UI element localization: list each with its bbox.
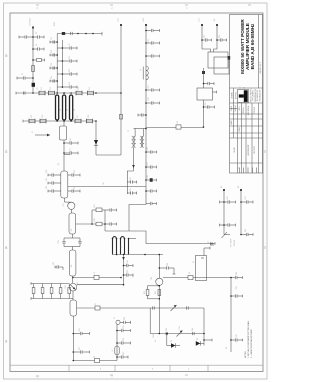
svg-text:C43: C43 bbox=[166, 328, 168, 331]
wire: bottom rail end cap bbox=[211, 242, 216, 245]
svg-text:RECORD: RECORD bbox=[254, 146, 256, 154]
svg-text:SCALE: SCALE bbox=[230, 105, 233, 111]
feed bus stub 4 bbox=[146, 88, 160, 91]
svg-text:L8: L8 bbox=[189, 272, 191, 274]
svg-text:C44: C44 bbox=[192, 328, 194, 331]
capacitor C25 bbox=[231, 338, 243, 341]
feed bus stub 3 bbox=[146, 54, 160, 57]
svg-text:TR2: TR2 bbox=[77, 282, 79, 285]
svg-text:L6: L6 bbox=[112, 350, 114, 352]
capacitor C12 bbox=[73, 332, 89, 335]
title block outline bbox=[230, 15, 263, 174]
PA module M3 bbox=[69, 250, 76, 276]
trimmer capacitor CV6 bbox=[40, 119, 46, 124]
ferrite bead on vertical net bbox=[119, 115, 122, 120]
svg-text:A: A bbox=[6, 339, 8, 343]
transformer T1 bbox=[132, 136, 145, 147]
wire: ladder right link bbox=[104, 210, 106, 231]
svg-text:1: 1 bbox=[186, 6, 188, 10]
module M4 bbox=[70, 300, 77, 316]
svg-text:C17: C17 bbox=[70, 148, 72, 151]
capacitor rung 3 bbox=[57, 72, 77, 75]
svg-text:Z1: Z1 bbox=[37, 87, 39, 89]
svg-text:C50: C50 bbox=[130, 188, 132, 191]
resistor R4 bbox=[50, 284, 53, 299]
svg-text:1. NOT ALL COMPONENTS FITTED: 1. NOT ALL COMPONENTS FITTED IN ALL bbox=[247, 321, 250, 358]
ferrite bead L5 bbox=[94, 275, 99, 279]
svg-text:TR1: TR1 bbox=[63, 203, 65, 206]
svg-text:C39: C39 bbox=[236, 286, 238, 289]
svg-text:L7: L7 bbox=[121, 246, 123, 248]
resistor R1 bbox=[32, 66, 35, 72]
svg-text:A: A bbox=[154, 340, 157, 342]
PA module M2 bbox=[69, 213, 76, 234]
wire: ladder left bus bbox=[56, 34, 58, 94]
node +13.8V rail label area bbox=[0, 0, 1, 1]
terminal arrow left bbox=[210, 244, 214, 246]
footer strip bbox=[10, 365, 263, 371]
resistor R5 bbox=[59, 284, 62, 299]
svg-text:AMENDMENT: AMENDMENT bbox=[247, 145, 250, 156]
svg-text:RX: RX bbox=[214, 18, 216, 21]
svg-text:2: 2 bbox=[188, 369, 190, 371]
ferrite bead L8 bbox=[188, 275, 193, 279]
svg-text:3: 3 bbox=[36, 6, 38, 10]
mixer stub 3 bbox=[146, 165, 157, 168]
svg-text:C24: C24 bbox=[58, 240, 60, 243]
svg-text:B: B bbox=[6, 246, 8, 250]
wire: jog into relay pin 2 bbox=[214, 46, 218, 52]
capacitor on tap line bbox=[153, 306, 155, 309]
svg-text:PCB 456: PCB 456 bbox=[254, 107, 256, 114]
thermistor TH1 bbox=[222, 232, 231, 238]
capacitor C32 bbox=[202, 38, 212, 41]
svg-text:C21: C21 bbox=[74, 170, 76, 173]
svg-text:T1: T1 bbox=[128, 130, 130, 132]
svg-text:R101: R101 bbox=[54, 22, 56, 26]
svg-text:C20: C20 bbox=[46, 186, 48, 189]
ladder rung stub 4 bbox=[50, 79, 57, 82]
capacitor C27 bbox=[220, 223, 236, 226]
svg-text:M2: M2 bbox=[71, 229, 73, 232]
capacitor C36 bbox=[127, 191, 136, 194]
wire: control top stub bbox=[204, 247, 210, 256]
svg-text:C: C bbox=[6, 150, 8, 154]
Q1 right pin 3 bbox=[68, 189, 80, 192]
svg-text:CV8: CV8 bbox=[88, 115, 90, 119]
svg-text:CV3: CV3 bbox=[78, 87, 80, 91]
svg-text:13V8 SW: 13V8 SW bbox=[30, 18, 32, 26]
notes text bbox=[245, 321, 253, 358]
trimmer capacitor CV3 bbox=[76, 91, 82, 96]
wire: detector line bbox=[146, 127, 204, 129]
feed bus stub 5 bbox=[146, 101, 160, 104]
matching network box bbox=[60, 126, 67, 140]
wire: bottom link bbox=[96, 154, 121, 156]
svg-text:L102: L102 bbox=[143, 18, 145, 22]
thermistor labels bbox=[231, 238, 236, 248]
svg-text:CV7: CV7 bbox=[77, 115, 79, 119]
trimmer capacitor CV2 bbox=[48, 91, 54, 96]
svg-text:C38: C38 bbox=[236, 272, 238, 275]
wire: M4 tap right bbox=[77, 307, 204, 309]
relay K1 box bbox=[208, 52, 228, 68]
svg-text:3: 3 bbox=[36, 375, 38, 379]
ferrite bead Z2 bbox=[95, 358, 100, 362]
table rows bbox=[230, 113, 263, 115]
control box U1 bbox=[196, 256, 207, 281]
svg-text:C30: C30 bbox=[123, 338, 125, 341]
switch branch vertical bbox=[127, 155, 135, 194]
inductor L6 bbox=[115, 346, 119, 355]
svg-text:L10: L10 bbox=[177, 121, 179, 124]
wire: filter top rail bbox=[16, 92, 121, 94]
mixer stub 4 bbox=[146, 189, 157, 192]
tiny component designator labels bbox=[22, 17, 247, 358]
title block small texts bbox=[230, 62, 262, 168]
wire: right end down bbox=[203, 334, 205, 346]
capacitor C24 bbox=[231, 294, 243, 297]
resistor R2 bbox=[32, 284, 35, 299]
svg-text:L5: L5 bbox=[94, 272, 96, 274]
capacitor C57 left stub bbox=[138, 113, 146, 116]
capacitor C30 bbox=[166, 332, 168, 335]
capacitor C6 bbox=[16, 91, 25, 94]
emitter resistor bank rails bbox=[31, 282, 73, 300]
bottom bias chain bbox=[150, 333, 204, 335]
svg-text:C14: C14 bbox=[51, 76, 53, 79]
svg-text:SENSE: SENSE bbox=[234, 239, 236, 246]
wire: ladder second bus bbox=[61, 40, 63, 88]
temp sense bus A bbox=[223, 190, 225, 235]
wire: bias line from Q1 bbox=[68, 186, 146, 188]
logo cell box bbox=[238, 90, 249, 103]
wire: long vertical net to mixer bbox=[120, 25, 122, 155]
svg-text:C48: C48 bbox=[147, 175, 149, 178]
svg-text:CV4: CV4 bbox=[89, 87, 91, 91]
capacitor C29 bbox=[241, 233, 253, 236]
svg-text:C54: C54 bbox=[219, 35, 221, 38]
top rail end terminal bbox=[101, 32, 103, 36]
svg-text:CV1: CV1 bbox=[41, 87, 43, 91]
ladder rung stub 3 bbox=[50, 66, 57, 69]
svg-text:C4: C4 bbox=[36, 44, 38, 46]
svg-text:R16: R16 bbox=[94, 218, 96, 221]
diode D2 bbox=[167, 334, 180, 348]
svg-text:SIZE A3: SIZE A3 bbox=[234, 105, 237, 111]
wire: M4 down bbox=[72, 316, 74, 361]
svg-text:C42: C42 bbox=[245, 229, 247, 232]
svg-text:C11: C11 bbox=[69, 56, 71, 59]
wire: TR2 emitter down bbox=[72, 291, 74, 300]
trimmer capacitor CV5 bbox=[23, 119, 35, 124]
svg-text:D2: D2 bbox=[197, 338, 199, 340]
svg-text:DRAWN: DRAWN bbox=[231, 92, 234, 99]
svg-text:SHEET 1 OF 1: SHEET 1 OF 1 bbox=[260, 62, 262, 73]
resistor R3 bbox=[41, 284, 44, 299]
wire: left input vertical bus bbox=[32, 27, 34, 93]
svg-text:L3: L3 bbox=[67, 109, 69, 111]
title block right narrow column bbox=[258, 15, 260, 89]
svg-text:2: 2 bbox=[111, 6, 113, 10]
capacitor C11 bbox=[55, 265, 63, 270]
svg-text:C15: C15 bbox=[69, 82, 71, 85]
svg-text:C16: C16 bbox=[70, 138, 72, 141]
svg-text:C22: C22 bbox=[74, 186, 76, 189]
wire: module M2 top rail bbox=[76, 223, 105, 225]
bias resistor pair R7 R8 bbox=[146, 286, 161, 299]
fuse link on top rail bbox=[62, 32, 65, 35]
svg-text:D: D bbox=[6, 54, 8, 58]
svg-text:C26: C26 bbox=[79, 328, 81, 331]
ferrite bead on tap bbox=[95, 306, 100, 310]
wire: feed line right bbox=[74, 277, 121, 279]
svg-text:NOTES:: NOTES: bbox=[245, 350, 247, 358]
capacitor C31 bbox=[193, 332, 195, 335]
svg-text:J1: J1 bbox=[32, 131, 34, 133]
svg-text:C27: C27 bbox=[79, 347, 81, 350]
svg-text:C2: C2 bbox=[36, 32, 38, 34]
svg-text:C47: C47 bbox=[147, 162, 149, 165]
svg-text:ISSUE: ISSUE bbox=[234, 147, 236, 153]
svg-text:M3: M3 bbox=[71, 265, 73, 268]
power transistor TR2 bbox=[69, 283, 77, 291]
wire: output rail step bbox=[105, 231, 215, 244]
capacitor C5 on top rail bbox=[71, 32, 73, 35]
svg-text:PTT: PTT bbox=[199, 17, 201, 21]
temp sense bus B bbox=[240, 190, 242, 235]
driver module Q1 bbox=[61, 171, 68, 198]
table column dividers bbox=[233, 103, 235, 138]
revision comb bbox=[239, 168, 241, 174]
svg-text:13V8: 13V8 bbox=[153, 334, 155, 338]
svg-text:C10: C10 bbox=[51, 50, 53, 53]
title text bbox=[240, 19, 255, 74]
connector pin P1 bbox=[116, 320, 120, 324]
ferrite bead Z1 bbox=[32, 83, 35, 87]
capacitor rung 2 bbox=[57, 59, 77, 62]
wire: ladder top row bbox=[92, 209, 105, 211]
resistor R15 bbox=[96, 208, 102, 212]
svg-text:Q1: Q1 bbox=[58, 163, 60, 165]
svg-text:R14: R14 bbox=[227, 196, 229, 199]
svg-text:C7: C7 bbox=[22, 73, 24, 75]
wire: tap drop left bbox=[149, 308, 151, 334]
capacitor C20 bbox=[124, 264, 134, 267]
svg-text:TR3: TR3 bbox=[151, 277, 153, 280]
top right input cluster vertical B bbox=[216, 25, 218, 46]
inductor L1 bbox=[33, 59, 45, 62]
wire: relay to filter box bbox=[203, 68, 205, 88]
svg-text:C40: C40 bbox=[236, 334, 238, 337]
ferrite bead L9 bbox=[176, 125, 181, 129]
svg-text:DRG No: DRG No bbox=[243, 107, 245, 113]
svg-text:C12: C12 bbox=[51, 63, 53, 66]
series inductor on feed bus bbox=[143, 66, 148, 80]
wire: F1 down bbox=[203, 100, 205, 127]
svg-text:CV5: CV5 bbox=[31, 115, 33, 119]
svg-text:1: 1 bbox=[238, 167, 240, 168]
relay K1 inner box bbox=[214, 57, 229, 74]
svg-text:CHKD: CHKD bbox=[239, 126, 241, 132]
capacitor C2 bbox=[33, 35, 44, 38]
svg-text:C37: C37 bbox=[208, 241, 210, 244]
Q1 left pin 1 bbox=[48, 173, 61, 176]
capacitor C7 bbox=[64, 141, 78, 144]
svg-text:C55: C55 bbox=[204, 35, 206, 38]
wire: top rail bbox=[57, 33, 102, 35]
capacitor rung 1 bbox=[57, 46, 77, 49]
svg-text:C49: C49 bbox=[130, 177, 132, 180]
svg-text:C25: C25 bbox=[53, 262, 55, 265]
svg-text:AD9-1358-A: AD9-1358-A bbox=[247, 105, 250, 115]
svg-text:C51: C51 bbox=[148, 39, 150, 42]
top right input cluster vertical A bbox=[201, 25, 203, 46]
svg-text:R2: R2 bbox=[238, 186, 240, 188]
svg-text:J2: J2 bbox=[114, 317, 116, 319]
input connector arrow J1 bbox=[35, 134, 50, 137]
svg-text:TR4: TR4 bbox=[179, 326, 181, 329]
diode D1 bbox=[94, 121, 98, 155]
output coil block L7 bbox=[113, 237, 129, 255]
arrow on sense branch bbox=[122, 257, 125, 260]
svg-text:DATE: DATE bbox=[230, 119, 233, 124]
svg-text:0V: 0V bbox=[226, 346, 228, 349]
svg-text:C52: C52 bbox=[148, 85, 150, 88]
feed bus stub 1 bbox=[146, 29, 160, 32]
ladder rung stub 1 bbox=[50, 40, 57, 43]
capacitor C35 bbox=[127, 180, 136, 183]
capacitor C23 bbox=[231, 276, 243, 279]
capacitor C21 bbox=[124, 273, 134, 277]
svg-text:C45: C45 bbox=[148, 97, 150, 100]
svg-text:C18: C18 bbox=[46, 170, 48, 173]
svg-text:C36: C36 bbox=[167, 263, 169, 266]
resistor R16 bbox=[96, 222, 102, 226]
svg-text:R11: R11 bbox=[95, 303, 97, 306]
svg-text:2. + DENOTES RF ADJUSTMENT: 2. + DENOTES RF ADJUSTMENT bbox=[250, 328, 253, 358]
wire: feed bus bbox=[145, 25, 147, 205]
wire: 13V8 bus right bbox=[230, 278, 232, 353]
capacitor rung 4 bbox=[57, 85, 77, 88]
wire: box down to driver bbox=[63, 140, 65, 171]
svg-text:C19: C19 bbox=[46, 178, 48, 181]
capacitor C34 bbox=[204, 105, 215, 108]
wire: jog into relay pin 1 bbox=[202, 46, 211, 52]
Q1 left pin 3 bbox=[48, 189, 61, 192]
Q1 left pin 2 bbox=[48, 181, 61, 184]
inner drawing frame bbox=[10, 13, 263, 372]
feedback capacitor bbox=[159, 266, 175, 274]
filter box F1 bbox=[197, 88, 213, 100]
wire: F1 right stub bbox=[213, 91, 217, 94]
relay common junction bbox=[202, 71, 205, 74]
svg-text:R15: R15 bbox=[94, 204, 96, 207]
capacitor C28 bbox=[241, 200, 253, 203]
coil filter L2 bbox=[56, 95, 59, 120]
wire: tap drop right bbox=[203, 308, 205, 334]
svg-text:R9: R9 bbox=[103, 182, 105, 184]
svg-text:TP1: TP1 bbox=[118, 18, 120, 21]
wire: coil block top tap bbox=[129, 238, 137, 240]
capacitor C19 bbox=[105, 222, 117, 225]
capacitor C15 bbox=[117, 329, 131, 332]
trimmer capacitor CV8 bbox=[86, 119, 92, 124]
company logo bbox=[239, 90, 248, 102]
svg-text:ISS 2: ISS 2 bbox=[239, 106, 241, 110]
resistor R6 bbox=[68, 284, 71, 299]
wire: ladder left link bbox=[91, 210, 93, 224]
svg-text:APPRVD: APPRVD bbox=[235, 91, 238, 99]
diode on relay output bbox=[228, 56, 231, 60]
feed bus stub 2 bbox=[146, 41, 160, 44]
margin zone letters bbox=[6, 6, 189, 379]
svg-text:C13: C13 bbox=[69, 69, 71, 72]
svg-text:Z2: Z2 bbox=[94, 356, 96, 358]
capacitor C13 bbox=[73, 350, 89, 353]
svg-text:C34: C34 bbox=[127, 260, 129, 263]
Q1 right pin 1 bbox=[68, 173, 80, 176]
svg-text:C53: C53 bbox=[205, 102, 207, 105]
svg-text:U1: U1 bbox=[193, 261, 195, 263]
svg-text:TH1 TEMP: TH1 TEMP bbox=[231, 238, 233, 248]
tantalum capacitor stub bbox=[146, 178, 157, 182]
svg-text:R12: R12 bbox=[144, 291, 146, 294]
svg-text:C28: C28 bbox=[124, 317, 126, 320]
svg-text:C29: C29 bbox=[123, 325, 125, 328]
diode D3 bbox=[196, 341, 204, 345]
svg-text:C31: C31 bbox=[123, 352, 125, 355]
wire: bottom run bbox=[73, 360, 117, 362]
capacitor C14 bbox=[120, 321, 131, 324]
svg-text:L2: L2 bbox=[60, 109, 62, 111]
trimmer capacitor CV4 bbox=[87, 91, 93, 96]
capacitor C16 bbox=[117, 341, 131, 344]
transistor TR5 bbox=[171, 305, 177, 311]
title/logo divider bbox=[230, 87, 263, 89]
wire: driver collector feed bbox=[163, 277, 231, 279]
capacitor C3 bbox=[33, 47, 44, 50]
frame zone tick marks bbox=[6, 5, 265, 376]
capacitor C22 bbox=[201, 257, 204, 259]
wire: sense vertical bbox=[116, 324, 118, 361]
net terminal ticks bbox=[32, 24, 242, 191]
wire: output line of M3 bbox=[72, 276, 74, 283]
svg-text:R10: R10 bbox=[65, 285, 67, 288]
interstage transistor TR1 bbox=[64, 198, 75, 213]
svg-text:C35: C35 bbox=[127, 270, 129, 273]
capacitor C17 bbox=[117, 355, 128, 358]
svg-text:D1: D1 bbox=[171, 340, 173, 342]
wire: stub to right tick bbox=[204, 339, 212, 342]
wire: filter bottom rail bbox=[23, 120, 96, 122]
svg-text:CV2: CV2 bbox=[50, 87, 52, 91]
svg-text:C41: C41 bbox=[245, 196, 247, 199]
driver transistor TR3 bbox=[156, 255, 163, 334]
wire: coil2 to box bbox=[63, 120, 65, 126]
capacitor C56 bbox=[204, 82, 215, 85]
transistor TR4 bbox=[177, 331, 183, 337]
capacitor on tap line 2 bbox=[187, 306, 189, 309]
svg-text:C23: C23 bbox=[79, 240, 81, 243]
wire: sense branch vertical bbox=[123, 255, 125, 286]
svg-text:C8: C8 bbox=[51, 37, 53, 39]
svg-text:R1: R1 bbox=[221, 186, 223, 188]
coil filter L3 bbox=[63, 95, 66, 120]
svg-text:R13: R13 bbox=[155, 291, 157, 294]
svg-text:FAX 01223 877: FAX 01223 877 bbox=[258, 90, 261, 102]
trimmer capacitor CV7 bbox=[75, 119, 81, 124]
